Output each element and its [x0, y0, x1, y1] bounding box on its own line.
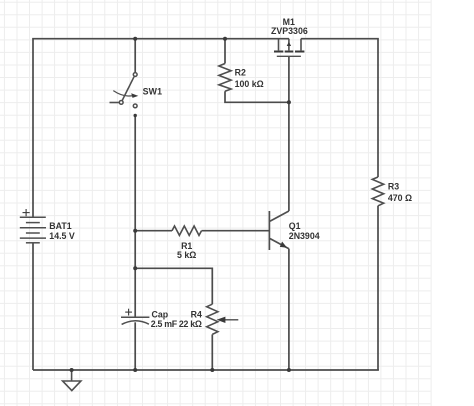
- mosfet body arrow (points up): [287, 42, 291, 46]
- potentiometer R4: [207, 304, 218, 334]
- resistor R2: [219, 64, 231, 92]
- wire cap/R4 top link: [135, 268, 212, 304]
- transistor Q1 (NPN 2N3904): [269, 211, 289, 250]
- capacitor Cap: [121, 316, 149, 318]
- wire R4 bottom to rail: [211, 334, 213, 370]
- wire cap bottom to rail: [134, 322, 136, 370]
- wire R1 left lead from switch column: [135, 230, 172, 232]
- switch SW1: [119, 73, 137, 108]
- switch actuation arc arrow: [113, 91, 134, 96]
- node switch column / R4 link junction: [133, 266, 137, 270]
- wire R2 column top: [224, 39, 226, 64]
- svg-text:R3: R3: [388, 182, 399, 192]
- wire battery- down to bottom rail: [32, 243, 34, 370]
- svg-text:BAT1: BAT1: [49, 221, 71, 231]
- svg-text:14.5 V: 14.5 V: [49, 231, 75, 241]
- wire R1 right lead to Q1 base: [202, 230, 270, 232]
- node top rail / R2 junction: [223, 37, 227, 41]
- node ground junction: [70, 368, 74, 372]
- svg-text:2.5 mF: 2.5 mF: [151, 319, 178, 329]
- svg-text:R4: R4: [191, 310, 202, 320]
- svg-text:100 kΩ: 100 kΩ: [235, 79, 264, 89]
- node gate / R2 / collector junction: [287, 100, 291, 104]
- svg-text:ZVP3306: ZVP3306: [271, 26, 308, 36]
- node R4 / rail junction: [210, 368, 214, 372]
- R4 wiper arrow: [225, 319, 239, 321]
- battery BAT1: [20, 217, 46, 243]
- wire top rail right (MOSFET drain to right column): [301, 39, 378, 177]
- svg-text:Q1: Q1: [289, 221, 301, 231]
- svg-text:R2: R2: [235, 68, 246, 78]
- node top rail / switch junction: [133, 37, 137, 41]
- wire Q1 emitter down to rail: [288, 249, 290, 370]
- mosfet channel bars: [274, 51, 304, 53]
- mosfet M1 (PMOS ZVP3306): [279, 39, 302, 51]
- svg-text:470 Ω: 470 Ω: [388, 193, 412, 203]
- wire R2 bottom to gate node: [225, 91, 289, 102]
- svg-text:Cap: Cap: [152, 309, 169, 319]
- battery plus sign: [23, 209, 30, 216]
- wire right column below R3: [377, 206, 379, 370]
- wire switch bottom terminal down to cap: [134, 116, 136, 318]
- ground: [71, 370, 73, 381]
- node switch column / R1 junction: [133, 229, 137, 233]
- svg-text:2N3904: 2N3904: [289, 231, 320, 241]
- wire gate node down / Q1 collector up: [288, 56, 290, 211]
- wire bottom rail: [33, 369, 379, 371]
- node cap / rail junction: [133, 368, 137, 372]
- resistor R3: [372, 177, 383, 206]
- node emitter / rail junction: [287, 368, 291, 372]
- svg-text:5 kΩ: 5 kΩ: [177, 250, 196, 260]
- wire top rail left (battery+ to MOSFET source/body): [33, 39, 289, 218]
- capacitor plus sign: [125, 309, 132, 316]
- switch bottom terminal dot: [134, 114, 137, 117]
- resistor R1: [172, 226, 202, 235]
- svg-text:22 kΩ: 22 kΩ: [179, 319, 202, 329]
- Q1 emitter arrowhead: [280, 242, 287, 248]
- wire switch column top: [134, 39, 136, 73]
- svg-text:SW1: SW1: [143, 86, 163, 96]
- mosfet gate plate: [277, 55, 301, 57]
